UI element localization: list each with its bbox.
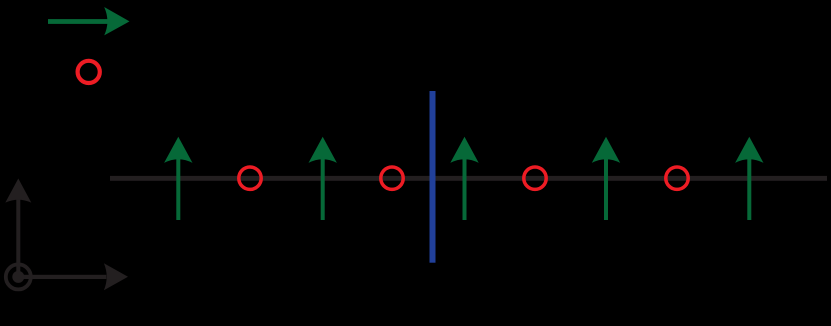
B-field circle 3 [524,167,546,189]
B-field circle 1 [239,167,261,189]
polarizer (blue vertical bar) [430,91,436,263]
E-field arrow 4 [592,137,620,220]
B-field circle 2 [381,167,403,189]
coordinate axes y-arrow (up) [5,179,31,278]
coordinate axes origin dot [12,271,24,283]
coordinate axes x-arrow (right) [18,263,128,290]
E-field arrow 5 [735,137,763,220]
E-field arrow 1 [164,137,192,220]
coordinate axes origin ring (z out of page) [6,264,31,289]
E-field arrow 3 [450,137,478,220]
legend B-field circle (red, out of page) [78,61,100,83]
propagation axis line [110,176,827,181]
legend E-field arrow (green, pointing right) [48,7,130,35]
E-field arrow 2 [309,137,337,220]
B-field circle 4 [666,167,688,189]
